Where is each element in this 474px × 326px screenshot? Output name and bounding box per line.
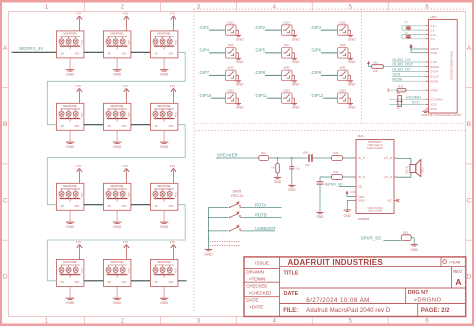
svg-text:VCOMH: VCOMH [430,97,442,101]
svg-text:NEOPIXEL: NEOPIXEL [63,260,77,264]
svg-text:PAM8302: PAM8302 [358,217,370,221]
svg-text:VO_N: VO_N [384,175,393,179]
svg-text:GND: GND [292,83,300,87]
svg-text:R14: R14 [334,170,339,174]
svg-text:U$16: U$16 [227,43,234,47]
svg-text:6: 6 [425,4,429,11]
svg-text:DI: DI [108,280,111,284]
svg-text:SCLK: SCLK [430,75,439,79]
svg-text:IN_N: IN_N [358,175,365,179]
svg-text:NEOPIXEL: NEOPIXEL [63,104,77,108]
svg-text:DO: DO [122,204,127,208]
svg-text:ADAFRUIT INDUSTRIES: ADAFRUIT INDUSTRIES [288,258,384,267]
svg-text:2: 2 [121,4,125,11]
svg-text:>YEAR: >YEAR [449,260,461,264]
svg-text:DO: DO [122,280,127,284]
svg-text:GND: GND [358,199,365,203]
svg-text:DO: DO [75,280,80,284]
svg-text:GND: GND [316,215,324,219]
svg-text:IN_P: IN_P [358,156,365,160]
svg-text:GND: GND [204,252,213,256]
svg-text:GIP10: GIP10 [200,93,213,98]
svg-text:3.3V: 3.3V [350,191,355,194]
svg-text:>TOWN: >TOWN [249,277,265,282]
svg-text:NEOPIXEL: NEOPIXEL [110,104,124,108]
svg-text:B: B [3,121,8,128]
svg-text:DI: DI [155,280,158,284]
svg-text:ROTA: ROTA [255,202,267,207]
svg-text:GND: GND [66,73,75,77]
svg-text:DO: DO [75,52,80,56]
svg-text:GND: GND [292,60,300,64]
svg-text:SD: SD [358,185,362,189]
svg-text:GIP6: GIP6 [312,48,322,53]
svg-text:NEOPIXEL: NEOPIXEL [110,32,124,36]
svg-text:VDD: VDD [129,192,131,197]
svg-text:U$15: U$15 [339,20,346,24]
svg-text:VDD: VDD [176,112,178,117]
svg-text:3.3V: 3.3V [170,12,176,16]
svg-text:NEOPIXEL: NEOPIXEL [63,184,77,188]
svg-text:GIP4: GIP4 [200,48,210,53]
svg-text:GIP2: GIP2 [256,25,266,30]
svg-text:3.3V: 3.3V [76,12,82,16]
svg-text:C1-: C1- [430,28,436,32]
svg-text:GND: GND [410,248,418,252]
svg-text:DO: DO [169,52,174,56]
svg-text:A: A [467,45,472,52]
svg-text:3.3V: 3.3V [76,240,82,244]
svg-text:DI: DI [61,204,64,208]
svg-text:3.3V: 3.3V [76,164,82,168]
svg-text:D: D [467,274,472,281]
svg-text:SPKR_SD: SPKR_SD [361,235,382,240]
svg-text:>CHECKED: >CHECKED [249,291,272,296]
svg-text:TITLE: TITLE [284,271,299,277]
svg-text:U$12: U$12 [431,15,438,19]
svg-text:D: D [3,274,8,281]
svg-text:VDD: VDD [176,192,178,197]
svg-text:IREF: IREF [430,88,438,92]
svg-text:C16: C16 [305,164,310,167]
svg-text:GND: GND [66,225,75,229]
svg-text:4: 4 [273,4,277,11]
svg-text:DI: DI [108,124,111,128]
svg-text:U$21: U$21 [339,66,346,70]
svg-text:GIP12: GIP12 [312,93,325,98]
svg-text:VSS: VSS [430,107,437,111]
svg-text:VDD: VDD [129,112,131,117]
svg-text:VO_P: VO_P [384,156,393,160]
svg-text:GIP3: GIP3 [312,25,322,30]
svg-text:U$24: U$24 [339,89,346,93]
svg-text:USBBOOT: USBBOOT [255,226,276,231]
svg-text:Gain: 24 dB: Gain: 24 dB [368,210,382,213]
svg-text:3.3V: 3.3V [170,164,176,168]
svg-text:NC: NC [388,199,393,203]
svg-text:SJ4: SJ4 [396,92,401,95]
svg-text:U$22: U$22 [227,89,234,93]
svg-text:DRAWN: DRAWN [246,270,264,275]
svg-text:NEOPIXEL: NEOPIXEL [157,260,171,264]
svg-text:U$18: U$18 [339,43,346,47]
svg-text:D/C#: D/C# [430,70,438,74]
svg-text:GND: GND [348,105,356,109]
svg-text:GIP5: GIP5 [256,48,266,53]
svg-text:DRG N?: DRG N? [408,290,429,296]
svg-text:3.3V: 3.3V [170,240,176,244]
svg-text:GND: GND [113,301,122,305]
svg-text:Adafruit MacroPad 2040 rev D: Adafruit MacroPad 2040 rev D [306,308,391,314]
svg-text:VDD: VDD [82,268,84,273]
svg-text:3.3V: 3.3V [123,164,129,168]
svg-text:U$19: U$19 [227,66,234,70]
svg-text:GND: GND [292,37,300,41]
svg-text:GND: GND [113,225,122,229]
svg-text:U$14: U$14 [283,20,290,24]
svg-text:VDD: VDD [82,192,84,197]
svg-text:3.3V: 3.3V [123,12,129,16]
svg-text:GND: GND [348,83,356,87]
svg-text:NEOPIX_3V: NEOPIX_3V [19,46,43,51]
svg-text:GIP7: GIP7 [200,70,210,75]
svg-text:DI: DI [108,204,111,208]
svg-text:SP2: SP2 [421,167,425,173]
svg-text:DATE: DATE [246,298,258,303]
svg-text:DO: DO [122,124,127,128]
svg-text:VDD: VDD [82,112,84,117]
svg-text:3.3V: 3.3V [170,84,176,88]
svg-text:OLED 128 X 64 Monochrome I2C/S: OLED 128 X 64 Monochrome I2C/SPI [421,114,462,117]
svg-text:U$20: U$20 [283,66,290,70]
svg-text:C2-: C2- [430,37,436,41]
svg-text:VCC: VCC [430,103,438,107]
svg-text:DO: DO [75,124,80,128]
svg-text:ROTB: ROTB [255,212,267,217]
svg-text:GND: GND [236,105,244,109]
svg-text:B: B [467,121,472,128]
svg-text:MOSI: MOSI [392,76,402,81]
svg-text:VDD: VDD [129,268,131,273]
svg-text:GND: GND [113,73,122,77]
svg-text:U$16: U$16 [357,134,364,138]
svg-text:U$23: U$23 [283,89,290,93]
svg-text:FILE:: FILE: [283,308,298,314]
svg-text:SDIN: SDIN [430,79,438,83]
svg-text:GND: GND [292,105,300,109]
svg-text:GND: GND [113,145,122,149]
svg-text:VDD: VDD [176,40,178,45]
svg-text:U$13: U$13 [227,20,234,24]
svg-text:8Ω 1W: 8Ω 1W [405,165,408,173]
svg-text:SPEAKER: SPEAKER [217,153,238,158]
svg-text:10k: 10k [373,69,378,73]
svg-text:VDD: VDD [82,40,84,45]
svg-text:REV: REV [453,269,462,274]
svg-text:A: A [3,45,8,52]
svg-text:DI: DI [61,280,64,284]
svg-text:GND: GND [344,214,352,218]
svg-text:1: 1 [45,317,49,324]
svg-text:6/27/2024 10:08 AM: 6/27/2024 10:08 AM [306,297,370,304]
svg-text:RES#: RES# [430,65,439,69]
svg-text:DO: DO [122,52,127,56]
svg-text:GND: GND [236,60,244,64]
svg-text:5: 5 [348,4,352,11]
svg-text:0.1u: 0.1u [295,168,300,171]
svg-text:NEOPIXEL: NEOPIXEL [110,184,124,188]
svg-text:GND: GND [160,225,169,229]
svg-text:C: C [3,197,8,204]
svg-text:GND: GND [236,37,244,41]
svg-text:PEC11: PEC11 [231,193,244,198]
svg-text:NEOPIXEL: NEOPIXEL [63,32,77,36]
svg-text:GND: GND [236,83,244,87]
svg-text:3.3V: 3.3V [123,84,129,88]
svg-text:DO: DO [169,280,174,284]
svg-text:DI: DI [155,124,158,128]
svg-text:VDD: VDD [176,268,178,273]
svg-text:U$17: U$17 [283,43,290,47]
svg-text:GND: GND [348,37,356,41]
svg-text:NEOPIXEL: NEOPIXEL [157,32,171,36]
svg-text:PAGE: 2/2: PAGE: 2/2 [421,308,450,314]
svg-text:10uF: 10uF [303,152,309,155]
svg-text:VDD: VDD [129,40,131,45]
svg-text:SSD1306 128X64 OLED: SSD1306 128X64 OLED [450,51,454,80]
svg-text:GIP11: GIP11 [256,93,268,98]
svg-text:ISSUE: ISSUE [255,261,269,266]
svg-text:R18: R18 [403,231,408,235]
svg-text:DI: DI [155,52,158,56]
svg-text:R16: R16 [373,60,378,64]
svg-text:DATE: DATE [284,291,299,297]
svg-text:Audio Amplifier: Audio Amplifier [367,147,384,150]
svg-text:GND: GND [160,73,169,77]
svg-text:SPKR_SD: SPKR_SD [326,183,343,187]
svg-text:C: C [467,197,472,204]
svg-text:>DATE: >DATE [249,305,263,310]
svg-text:A: A [455,277,461,287]
svg-text:GND: GND [274,180,282,184]
svg-text:3.3V: 3.3V [76,84,82,88]
svg-text:CS#: CS# [430,60,437,64]
svg-text:R13: R13 [261,151,266,155]
svg-text:1: 1 [45,4,49,11]
svg-text:GND: GND [66,301,75,305]
svg-text:VDD: VDD [430,51,438,55]
svg-text:DI: DI [108,52,111,56]
svg-text:NEOPIXEL: NEOPIXEL [157,184,171,188]
svg-text:R12: R12 [399,84,404,88]
svg-text:DI: DI [155,204,158,208]
svg-text:6: 6 [425,317,429,324]
svg-text:GND: GND [66,145,75,149]
svg-text:VCC: VCC [412,100,420,105]
svg-text:DO: DO [75,204,80,208]
svg-text:GND: GND [288,188,296,192]
svg-text:GND: GND [348,60,356,64]
svg-text:GIP9: GIP9 [312,70,322,75]
svg-text:GND: GND [160,145,169,149]
svg-text:R15: R15 [334,151,339,155]
svg-text:NEOPIXEL: NEOPIXEL [110,260,124,264]
svg-text:DI: DI [61,124,64,128]
svg-text:GND: GND [160,301,169,305]
svg-text:CHECKED: CHECKED [246,284,267,289]
svg-text:>DRGNO: >DRGNO [414,298,442,304]
svg-text:2: 2 [121,317,125,324]
svg-text:1M: 1M [271,167,274,170]
svg-text:3.3V: 3.3V [123,240,129,244]
svg-text:DO: DO [169,124,174,128]
svg-text:DO: DO [169,204,174,208]
svg-text:GIP8: GIP8 [256,70,266,75]
svg-text:GIP1: GIP1 [200,25,210,30]
svg-text:3: 3 [197,317,201,324]
svg-text:5: 5 [348,317,352,324]
svg-text:DI: DI [61,52,64,56]
svg-text:4: 4 [273,317,277,324]
svg-text:NEOPIXEL: NEOPIXEL [157,104,171,108]
svg-text:3: 3 [197,4,201,11]
